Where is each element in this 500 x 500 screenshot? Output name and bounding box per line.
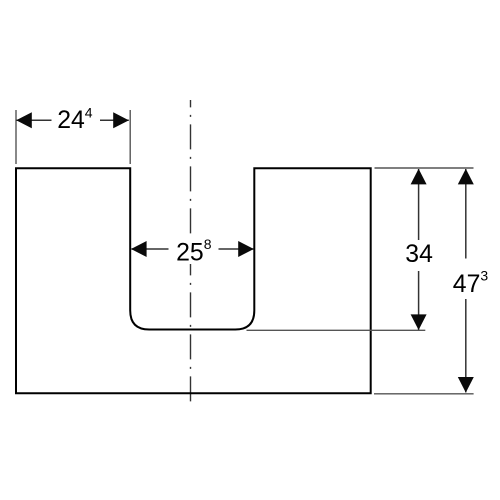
svg-text:34: 34 (405, 241, 433, 268)
